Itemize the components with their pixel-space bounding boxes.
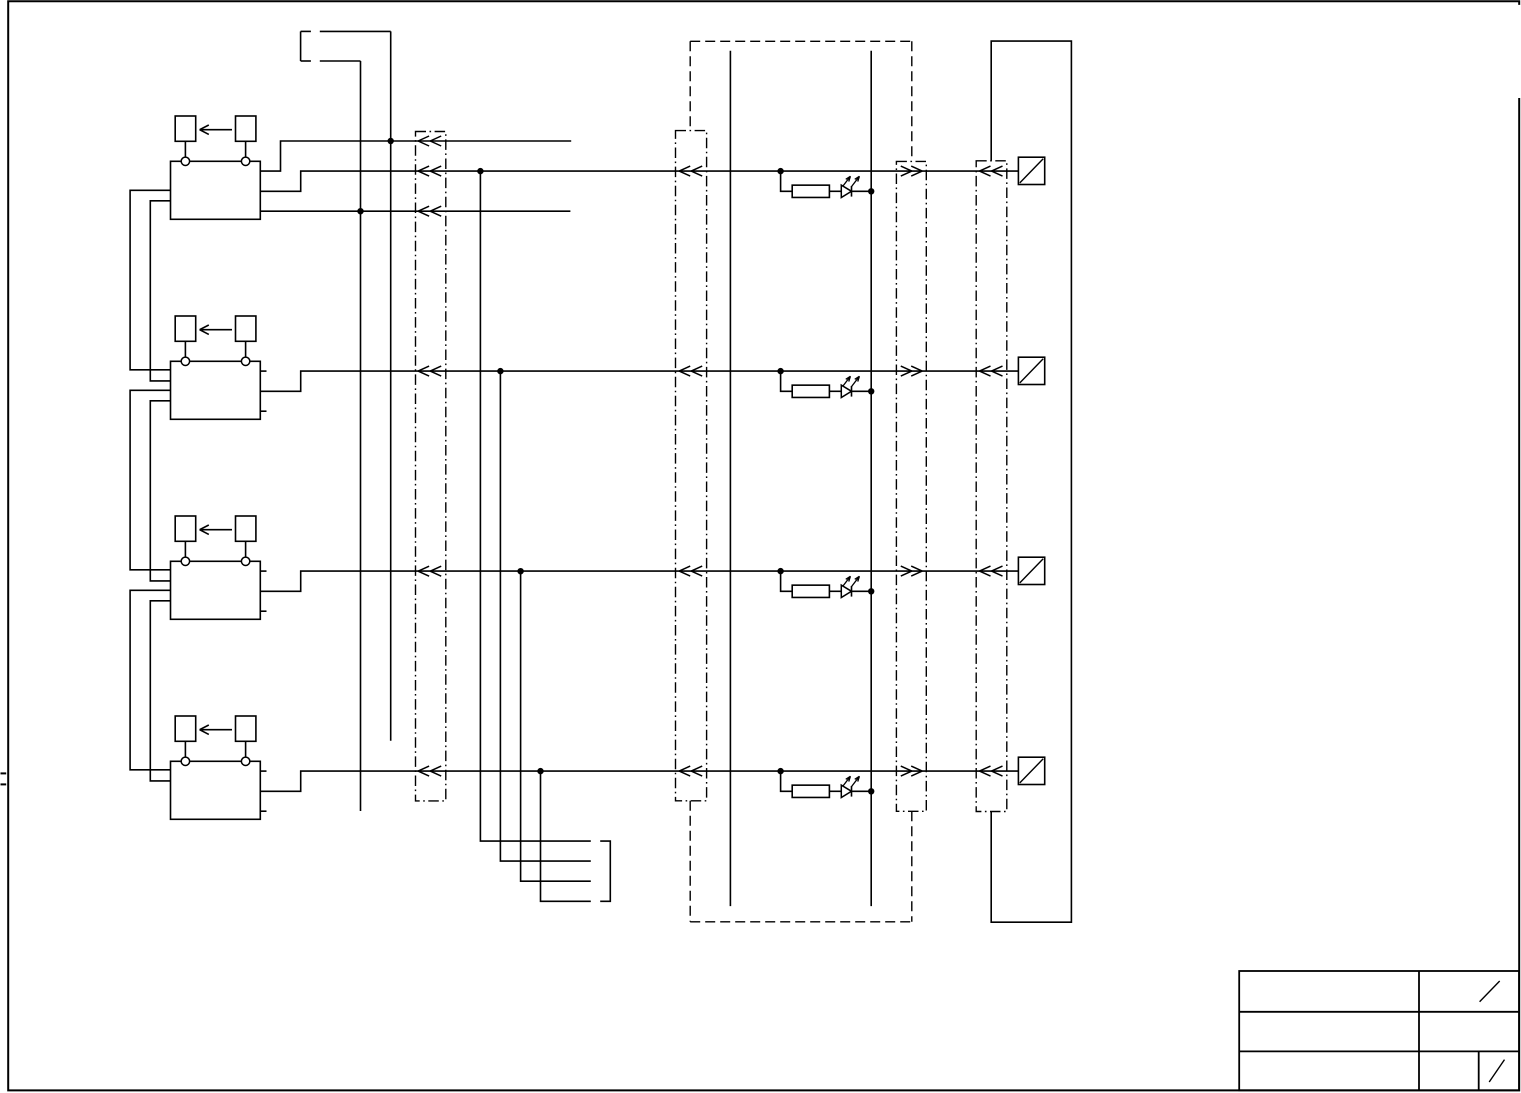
wire drop to resistor R1 bbox=[781, 171, 793, 191]
device A4 indicator square S1 bbox=[175, 716, 196, 741]
wire LED to bus L2 row2 bbox=[852, 390, 872, 392]
wire device A1 pin1 to row1 upper line bbox=[260, 141, 571, 171]
device A4 port circle P1 bbox=[181, 757, 189, 765]
device A4 indicator square S2 bbox=[236, 716, 256, 741]
wire drop row2 to bundle bbox=[500, 371, 590, 861]
junction row3 at resistor drop bbox=[777, 568, 783, 574]
bus wire vertical A bbox=[360, 61, 362, 811]
title block slash 1 bbox=[1480, 981, 1500, 1002]
junction row2 on bus L2 bbox=[868, 388, 874, 394]
LED VD2 bbox=[841, 385, 851, 397]
resistor R3 bbox=[792, 585, 829, 597]
LED VD4 light arrow bbox=[843, 776, 851, 786]
title block slash 2 bbox=[1489, 1060, 1504, 1082]
bundle end bracket bbox=[600, 841, 610, 901]
junction row4 at drop wire bbox=[537, 768, 543, 774]
device A3 port circle P2 bbox=[241, 557, 249, 565]
transducer B3 bbox=[1018, 557, 1044, 584]
junction row3 at drop wire bbox=[517, 568, 523, 574]
bus wire vertical B bbox=[390, 31, 392, 740]
wire R4 to LED bbox=[829, 790, 841, 792]
cable W4 arrow row2 bbox=[980, 366, 991, 371]
cable W1 arrow at y=771.1 bbox=[418, 766, 429, 771]
connector X1 body bbox=[300, 31, 302, 61]
device A4 port circle P2 bbox=[241, 757, 249, 765]
cabinet dashed outline right upper bbox=[911, 41, 913, 161]
device A2 port circle P2 bbox=[241, 357, 249, 365]
wire chain A2-A3 upper bbox=[130, 390, 170, 570]
device A2 pin3 stub bbox=[260, 410, 266, 412]
cable W2 arrow row2 bbox=[679, 366, 690, 371]
wire from X1 pin2 bbox=[320, 60, 361, 62]
cable W1 arrow at y=571.2 bbox=[418, 566, 429, 571]
transducer B1 bbox=[1018, 157, 1044, 184]
wire drop row4 to bundle bbox=[541, 771, 591, 901]
device A3 port stub P1 bbox=[184, 541, 186, 557]
cable channel W2 outline bbox=[676, 131, 707, 801]
wire device A3 pin2 long line row3 bbox=[260, 571, 1018, 591]
device A4 port stub P2 bbox=[245, 741, 247, 757]
wire chain A1-A2 upper bbox=[130, 190, 170, 369]
LED VD2 light arrow bbox=[843, 376, 851, 386]
cabinet dashed outline left upper bbox=[689, 41, 691, 130]
junction row1 at drop wire bbox=[477, 168, 483, 174]
device A3 body bbox=[171, 561, 261, 619]
wire LED to bus L2 row1 bbox=[852, 190, 872, 192]
device A3 arrow bbox=[200, 529, 232, 531]
cable W1 arrow at y=371.1 bbox=[418, 366, 429, 371]
cable W4 arrow row4 bbox=[980, 766, 991, 771]
right cabinet outline bbox=[991, 41, 1071, 922]
cable W1 arrow at y=211.2 bbox=[418, 206, 429, 211]
LED VD4 bbox=[841, 785, 851, 797]
device A2 port circle P1 bbox=[181, 357, 189, 365]
junction row1 on bus L2 bbox=[868, 188, 874, 194]
wire chain A3-A4 upper bbox=[130, 590, 170, 770]
wire drop row1 to bundle bbox=[480, 171, 590, 841]
device A4 body bbox=[171, 761, 261, 819]
fold mark 2 bbox=[1, 783, 7, 785]
cable W2 arrow row3 bbox=[679, 566, 690, 571]
cable channel W1 outline bbox=[416, 132, 446, 801]
bus line L2 bbox=[870, 51, 872, 906]
cabinet dashed outline bottom bbox=[690, 921, 912, 923]
device A1 indicator square S1 bbox=[175, 116, 196, 141]
junction row4 at resistor drop bbox=[777, 768, 783, 774]
bus line L1 bbox=[729, 51, 731, 906]
transducer B4 bbox=[1018, 757, 1044, 784]
device A1 arrow bbox=[200, 129, 232, 131]
LED VD4 light arrow bbox=[852, 776, 860, 786]
device A2 indicator square S2 bbox=[236, 316, 256, 341]
wire drop to resistor R4 bbox=[781, 771, 793, 791]
wire device A2 pin2 long line row2 bbox=[260, 371, 1018, 391]
cable W2 arrow row1 bbox=[679, 166, 690, 171]
junction row3 on bus L2 bbox=[868, 588, 874, 594]
title block row line 1 bbox=[1239, 1011, 1519, 1013]
device A3 port stub P2 bbox=[245, 541, 247, 557]
cable W3 arrow row1 bbox=[901, 166, 912, 171]
cabinet dashed outline right lower bbox=[911, 811, 913, 922]
device A3 pin3 stub bbox=[260, 610, 266, 612]
device A2 port stub P1 bbox=[184, 341, 186, 357]
junction row2 at drop wire bbox=[497, 368, 503, 374]
junction on lower line at vertical A bbox=[357, 208, 363, 214]
device A2 arrow bbox=[200, 329, 232, 331]
cable W2 arrow row4 bbox=[679, 766, 690, 771]
title block row line 2 bbox=[1239, 1050, 1519, 1052]
LED VD3 bbox=[841, 585, 851, 597]
device A4 port stub P1 bbox=[184, 741, 186, 757]
device A4 pin1 stub bbox=[260, 770, 266, 772]
device A3 pin1 stub bbox=[260, 570, 266, 572]
device A1 port circle P1 bbox=[181, 157, 189, 165]
device A1 indicator square S2 bbox=[236, 116, 256, 141]
title block sub column line bbox=[1478, 1051, 1480, 1090]
LED VD2 light arrow bbox=[852, 376, 860, 386]
device A2 body bbox=[171, 361, 261, 419]
LED VD1 light arrow bbox=[843, 176, 851, 186]
LED VD1 bbox=[841, 185, 851, 197]
junction row2 at resistor drop bbox=[777, 368, 783, 374]
resistor R4 bbox=[792, 785, 829, 797]
wire drop row3 to bundle bbox=[521, 571, 591, 881]
cable W1 arrow at y=141.0 bbox=[418, 136, 429, 141]
wire drop to resistor R3 bbox=[781, 571, 793, 591]
junction on upper line at vertical B bbox=[388, 138, 394, 144]
device A1 port stub P1 bbox=[184, 141, 186, 157]
wire R1 to LED bbox=[829, 190, 841, 192]
wire chain A3-A4 lower bbox=[150, 601, 170, 781]
fold mark 1 bbox=[1, 772, 7, 774]
title block outline bbox=[1239, 971, 1519, 1090]
cable W4 arrow row1 bbox=[980, 166, 991, 171]
device A1 body bbox=[171, 161, 261, 219]
resistor R2 bbox=[792, 385, 829, 397]
cable channel W4 outline bbox=[976, 161, 1007, 812]
device A4 pin3 stub bbox=[260, 810, 266, 812]
wire LED to bus L2 row4 bbox=[852, 790, 872, 792]
wire chain A1-A2 lower bbox=[150, 201, 170, 381]
wire chain A2-A3 lower bbox=[150, 401, 170, 581]
title block column line bbox=[1418, 971, 1420, 1090]
cable W1 arrow at y=171.1 bbox=[418, 166, 429, 171]
cabinet dashed outline top bbox=[690, 40, 912, 42]
wire R2 to LED bbox=[829, 390, 841, 392]
transducer B2 bbox=[1018, 357, 1044, 384]
wire LED to bus L2 row3 bbox=[852, 590, 872, 592]
wire drop to resistor R2 bbox=[781, 371, 793, 391]
LED VD1 light arrow bbox=[852, 176, 860, 186]
device A2 port stub P2 bbox=[245, 341, 247, 357]
wire device A1 pin3 row1 lower line bbox=[260, 210, 570, 212]
junction row1 at resistor drop bbox=[777, 168, 783, 174]
device A2 indicator square S1 bbox=[175, 316, 196, 341]
cable W3 arrow row4 bbox=[901, 766, 912, 771]
wire R3 to LED bbox=[829, 590, 841, 592]
wire device A4 pin2 long line row4 bbox=[260, 771, 1018, 791]
cable W4 arrow row3 bbox=[980, 566, 991, 571]
junction row4 on bus L2 bbox=[868, 788, 874, 794]
cable W3 arrow row3 bbox=[901, 566, 912, 571]
wire device A1 pin2 long line row1 bbox=[260, 171, 1018, 191]
device A3 indicator square S2 bbox=[236, 516, 256, 541]
device A1 port circle P2 bbox=[241, 157, 249, 165]
cable W3 arrow row2 bbox=[901, 366, 912, 371]
device A3 indicator square S1 bbox=[175, 516, 196, 541]
wire from X1 pin1 bbox=[320, 30, 391, 32]
resistor R1 bbox=[792, 185, 829, 197]
device A1 port stub P2 bbox=[245, 141, 247, 157]
LED VD3 light arrow bbox=[843, 576, 851, 586]
cabinet dashed outline left lower bbox=[689, 801, 691, 922]
device A3 port circle P1 bbox=[181, 557, 189, 565]
LED VD3 light arrow bbox=[852, 576, 860, 586]
device A2 pin1 stub bbox=[260, 370, 266, 372]
cable channel W3 outline bbox=[896, 161, 926, 811]
device A4 arrow bbox=[200, 729, 232, 731]
